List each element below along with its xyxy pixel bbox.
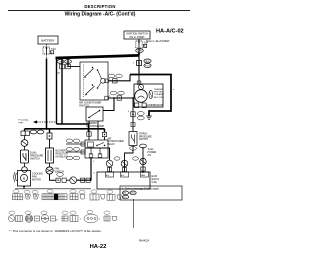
svg-text:SWITCH: SWITCH [30,158,40,161]
bus box (ECM) [97,172,150,189]
relay left wires [66,143,85,145]
chain L1 connector [21,131,25,136]
wire battery to fuse (dotted) [46,44,48,47]
connector squares [60,64,65,69]
legend divider [133,199,135,228]
svg-text:To EL-: To EL- [148,149,155,151]
connector id ovals [144,59,151,63]
svg-text:BATTERY: BATTERY [41,38,55,42]
connector legend row 2 [8,214,117,223]
inline connector round [70,177,77,184]
svg-text:CONDITIONER: CONDITIONER [108,141,124,143]
wire ignition feed down [138,48,140,75]
dual pressure switch [21,150,29,163]
motor ground stub [23,186,25,189]
relay output to bus [108,148,110,160]
wire fuse down (dotted then bold) [46,54,48,59]
row2 labels [9,210,110,214]
junction dot battery-bus [45,128,47,130]
pressure switch chain wire [132,98,134,132]
relay bottom terminals [89,154,93,158]
triple-pressure switch [129,132,137,146]
svg-text:1 : Refer to last page (Foldou: 1 : Refer to last page (Foldout page). [122,188,160,191]
left vertical wire from band [56,58,58,124]
svg-text:DESCRIPTION: DESCRIPTION [84,4,115,9]
wire fan switch to relay feed [50,174,57,180]
svg-text:C/M): C/M) [152,181,157,184]
svg-text:HA-A/C-02: HA-A/C-02 [156,29,184,35]
switch terminals [105,79,109,83]
output wire lower [108,97,133,99]
svg-text:Refer to “EL-POWER”.: Refer to “EL-POWER”. [146,40,171,43]
wire color ovals row [114,157,120,160]
header rule [8,9,190,11]
relay to blower feed [77,158,91,180]
svg-text:SWITCH: SWITCH [139,139,148,141]
svg-text:HA-22: HA-22 [90,244,107,250]
svg-text:ON or START: ON or START [129,36,145,39]
main feed bus line B [25,128,105,130]
footnote reference box [120,186,182,200]
wire to bus [125,146,134,173]
A/C relay box [85,140,108,158]
wire bus B to relay [104,137,106,140]
connector legend row 1 [13,194,122,200]
svg-text:REV. DET.: REV. DET. [154,97,165,99]
svg-text:A/C: A/C [121,174,125,177]
blower resistor [46,148,54,163]
svg-text:RELAY: RELAY [108,143,116,146]
svg-text:FAN: FAN [141,174,145,177]
output wire upper (to compressor box) [108,75,130,81]
condenser fan motor [18,171,31,187]
blower motor circle [46,167,53,174]
svg-text:POWER: POWER [148,152,157,154]
svg-text:page: page [19,122,25,124]
svg-text:E101: E101 [130,193,136,195]
fuse F (battery) [43,47,50,54]
svg-text:PRESSURE: PRESSURE [139,136,152,138]
svg-text:F101: F101 [145,66,151,68]
svg-text:TOR AND: TOR AND [154,93,164,96]
compressor terminals [135,103,139,108]
svg-text:COMPRESSOR: COMPRESSOR [146,105,163,107]
collector line A [57,124,89,132]
ground rail [15,188,91,190]
svg-text:* : This connector is not show: * : This connector is not shown in “HARN… [9,229,102,233]
wire battery feed bold vertical [46,59,48,129]
svg-text:A/C: A/C [106,174,110,177]
connector on ignition feed [137,61,142,66]
connector on chain [131,112,135,117]
band drop wires [61,59,63,124]
ground [146,116,152,120]
grommet ovals G6 E6 [57,60,64,64]
fuse (ignition) [136,41,142,48]
switch internals [84,65,106,98]
row1 labels [13,190,113,194]
chain L2 connector [47,133,52,139]
right sensor chain [142,147,144,173]
wire into A/C switch [68,66,80,68]
svg-text:Preceding: Preceding [19,118,30,121]
svg-text:Wiring Diagram -A/C- (Cont’d): Wiring Diagram -A/C- (Cont’d) [65,11,136,17]
svg-text:A/C: A/C [148,154,152,157]
junction dot ignition feed [138,53,140,55]
battery box [38,36,58,44]
A/C switch box [80,62,108,100]
compressor box [134,84,163,107]
svg-text:TRIPLE-: TRIPLE- [139,134,148,136]
compressor ground loop wire [130,75,171,117]
inline connector circle [121,160,128,167]
svg-text:MOTOR: MOTOR [32,179,41,182]
wire ignition to fuse [138,39,140,41]
thermo control amp box [86,107,103,121]
junction to thermo amp branch [113,97,115,99]
harness band (bold) [56,55,140,58]
relay feeds [88,121,90,140]
svg-text:G/R: G/R [137,50,142,53]
thermo pill [149,90,153,98]
thermal protector circle [138,84,143,89]
svg-text:AIR: AIR [108,137,112,140]
svg-text:(HI RELAY): (HI RELAY) [56,156,69,159]
svg-text:RHA422A: RHA422A [139,240,150,243]
ignition switch box [124,31,150,39]
wire color oval G/R [136,49,144,53]
clutch circle [135,90,148,103]
chain L1 grommet circle [21,140,28,147]
